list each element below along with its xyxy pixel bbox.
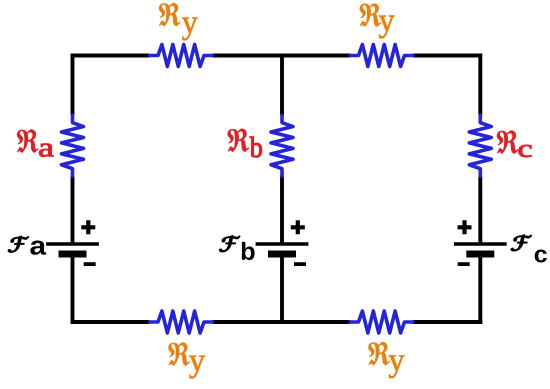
wire bottom rail left segment xyxy=(73,320,149,324)
battery long plate (+) xyxy=(454,242,507,245)
resistor Ry top-left xyxy=(148,45,214,67)
label Ry top-left: subscript y xyxy=(182,18,198,41)
label Fa: script F xyxy=(8,236,28,252)
minus sign xyxy=(458,262,470,266)
label Ry bottom-left: subscript y xyxy=(189,356,205,379)
battery long plate (+) xyxy=(256,242,309,245)
battery Fb xyxy=(256,220,309,264)
wire bottom rail right segment xyxy=(415,320,481,324)
wire top rail left segment xyxy=(73,54,149,58)
resistor Ry bottom-left xyxy=(148,311,214,333)
battery short plate (-) xyxy=(466,251,494,258)
wire right rail mid segment xyxy=(478,178,482,243)
resistor Ry bottom-right xyxy=(349,311,415,333)
wire middle rail upper segment xyxy=(280,56,284,114)
wire top rail middle segment xyxy=(214,54,349,58)
label Fb: script F xyxy=(220,236,240,252)
label Ry bottom-left: R xyxy=(168,343,190,366)
resistor Ry top-right xyxy=(349,45,415,67)
battery Fc xyxy=(454,220,507,264)
wire left rail upper segment xyxy=(71,56,75,114)
label Rb: R xyxy=(228,129,250,152)
minus sign xyxy=(294,262,306,266)
label Ry top-right: R xyxy=(360,3,382,26)
minus sign xyxy=(84,262,96,266)
resistor Rc element xyxy=(469,114,491,178)
plus sign xyxy=(81,220,95,234)
label Ry top-left: R xyxy=(159,3,181,26)
battery short plate (-) xyxy=(268,251,296,258)
battery short plate (-) xyxy=(59,251,87,258)
label Fc: subscript c xyxy=(535,249,547,262)
wire right rail upper segment xyxy=(478,56,482,114)
label Rc: subscript c xyxy=(519,145,532,157)
wire bottom rail middle segment xyxy=(214,320,349,324)
battery long plate (+) xyxy=(46,242,99,245)
label Fc: script F xyxy=(511,235,531,251)
label Fa: letter a xyxy=(30,240,46,254)
label Ry top-right: subscript y xyxy=(379,16,395,39)
label Rb: subscript b xyxy=(250,137,262,158)
label Ry bottom-right: R xyxy=(368,342,390,365)
label Fb: subscript b xyxy=(242,242,255,260)
label Ry bottom-right: subscript y xyxy=(389,355,405,378)
wire top rail right segment xyxy=(415,54,481,58)
resistor Rb element xyxy=(271,114,293,178)
label Ra: R xyxy=(17,130,39,153)
battery Fa xyxy=(46,220,99,264)
plus sign xyxy=(291,220,305,234)
wire left rail lower segment xyxy=(71,254,75,322)
label Rc: R xyxy=(497,131,519,154)
wire middle rail lower segment xyxy=(280,254,284,322)
wire left rail mid segment xyxy=(71,178,75,243)
label Ra: subscript a xyxy=(39,144,53,157)
wire right rail lower segment xyxy=(478,254,482,322)
plus sign xyxy=(458,220,472,234)
wire middle rail mid segment xyxy=(280,178,284,243)
resistor Ra element xyxy=(62,114,84,178)
